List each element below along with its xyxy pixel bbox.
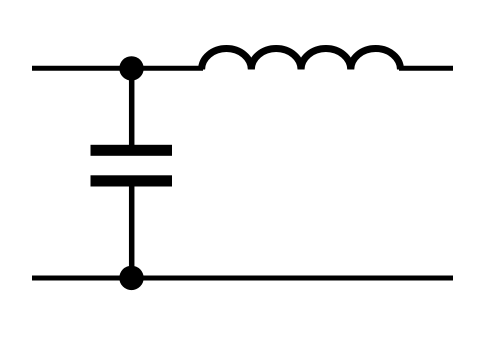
capacitor C1 bottom plate xyxy=(91,175,173,186)
wire: bottom rail xyxy=(32,276,453,281)
wire: vertical from top junction down to capacitor xyxy=(129,68,135,146)
wire: top rail left segment (input to inductor) xyxy=(32,66,203,71)
inductor L1 (4 humps) xyxy=(202,49,401,70)
wire: top rail right segment (inductor to output) xyxy=(399,66,453,71)
node: bottom junction dot xyxy=(119,266,143,290)
capacitor C1 top plate xyxy=(91,145,173,156)
wire: vertical from capacitor down to bottom junction xyxy=(129,186,135,278)
node: top junction dot xyxy=(119,56,143,80)
